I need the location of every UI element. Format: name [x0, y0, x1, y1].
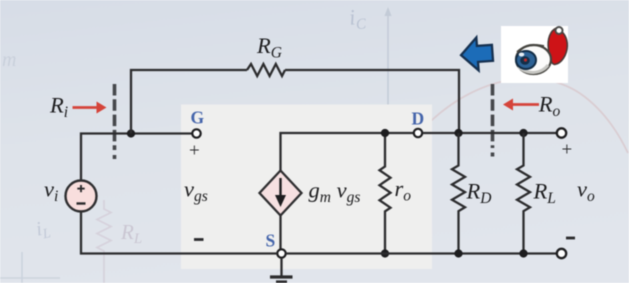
junction R_L top: [519, 129, 527, 137]
ground: [270, 258, 293, 282]
svg-text:+: +: [562, 140, 573, 161]
controlled source gm*vgs: [260, 171, 361, 216]
resistor R_L: [517, 133, 556, 254]
input port dashed line: [113, 84, 117, 159]
node G: [191, 108, 205, 138]
label v_o: [577, 177, 595, 206]
junction drain R_D: [454, 129, 462, 137]
wire v_i top to gate node: [81, 134, 192, 183]
junction r_o bottom: [381, 249, 389, 257]
svg-text:m: m: [2, 49, 16, 71]
transistor small-signal model box: [181, 105, 432, 270]
junction r_o top: [381, 129, 389, 137]
node S: [266, 231, 286, 258]
resistor r_o: [380, 133, 412, 254]
label R_o with arrow: [503, 92, 561, 121]
resistor R_D: [452, 133, 491, 254]
output port dashed line: [491, 84, 495, 157]
blue arrow icon: [460, 36, 494, 71]
wire feedback top right: [285, 70, 459, 133]
node D: [412, 109, 425, 138]
wire drain to output: [423, 132, 558, 134]
source v_i: [44, 177, 97, 212]
resistor R_G: [247, 33, 285, 76]
terminal vo minus: [557, 238, 575, 258]
junction input node: [127, 129, 135, 137]
svg-text:+: +: [189, 141, 200, 162]
bottom rail: [81, 210, 557, 254]
wire gm source to drain node: [281, 133, 415, 172]
wire gm source bottom to S: [279, 214, 281, 249]
svg-text:S: S: [266, 231, 276, 251]
eye icon: [501, 26, 568, 83]
svg-text:G: G: [191, 108, 205, 128]
junction bottom R_D: [454, 249, 462, 257]
label R_i with arrow: [49, 93, 107, 122]
label v_gs with polarity: [184, 141, 208, 240]
junction bottom R_L: [519, 249, 527, 257]
wire feedback top left: [131, 70, 247, 134]
svg-text:D: D: [412, 109, 425, 129]
terminal vo plus: [557, 128, 572, 160]
